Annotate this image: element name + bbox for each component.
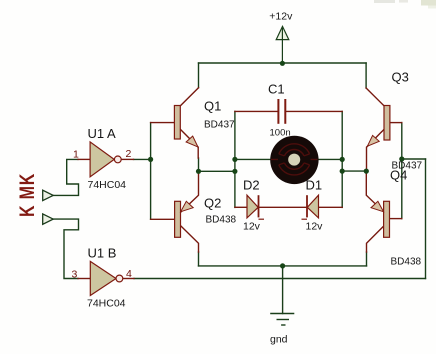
svg-text:K MK: K MK bbox=[15, 173, 39, 217]
svg-text:12v: 12v bbox=[243, 221, 261, 233]
svg-text:100n: 100n bbox=[270, 128, 291, 139]
svg-text:U1 A: U1 A bbox=[88, 126, 117, 141]
svg-text:74HC04: 74HC04 bbox=[87, 298, 126, 310]
svg-text:BD437: BD437 bbox=[204, 120, 235, 131]
svg-text:4: 4 bbox=[126, 268, 132, 280]
svg-text:74HC04: 74HC04 bbox=[88, 179, 127, 191]
svg-text:+12v: +12v bbox=[269, 11, 293, 23]
svg-text:1: 1 bbox=[73, 149, 79, 161]
svg-text:D2: D2 bbox=[243, 178, 260, 193]
svg-text:Q3: Q3 bbox=[392, 70, 409, 85]
svg-text:Q1: Q1 bbox=[204, 99, 221, 114]
svg-text:U1 B: U1 B bbox=[88, 246, 117, 261]
svg-text:gnd: gnd bbox=[270, 334, 288, 346]
svg-text:2: 2 bbox=[126, 148, 132, 160]
svg-text:C1: C1 bbox=[268, 82, 285, 97]
svg-text:3: 3 bbox=[72, 269, 78, 281]
svg-text:Q2: Q2 bbox=[204, 196, 221, 211]
svg-text:BD437: BD437 bbox=[392, 161, 423, 172]
svg-text:BD438: BD438 bbox=[391, 257, 422, 268]
svg-text:BD438: BD438 bbox=[206, 215, 237, 226]
svg-text:D1: D1 bbox=[306, 178, 323, 193]
svg-text:12v: 12v bbox=[306, 221, 324, 233]
